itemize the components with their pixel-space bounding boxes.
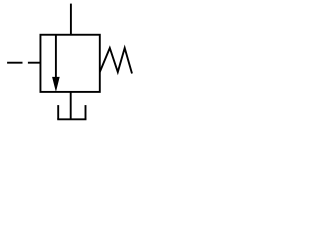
tank T1 (57, 105, 86, 119)
valve body V1 (40, 35, 99, 92)
flow path arrow stem (55, 35, 57, 79)
wire drain line to tank (70, 92, 72, 119)
spring (100, 48, 132, 74)
wire top port line (70, 4, 72, 35)
flow path arrowhead (52, 77, 60, 92)
pilot line dashed (7, 62, 40, 64)
